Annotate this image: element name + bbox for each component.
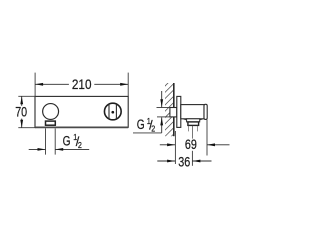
dim 210 ext line right	[127, 73, 129, 97]
svg-text:G: G	[63, 133, 71, 148]
side G1/2 bottom arrow	[161, 117, 163, 132]
dim G1/2 front ext line left	[45, 128, 47, 154]
wall surface line lower	[173, 117, 175, 136]
dim 36 left arrow	[157, 160, 175, 162]
dim 70 ext line top	[18, 95, 35, 97]
dim 69 left arrow	[160, 144, 175, 146]
dim G1/2 front left arrow	[29, 148, 46, 150]
outlet boss circle	[104, 103, 121, 120]
dim 69 right arrow	[207, 144, 230, 146]
hose phantom line right	[197, 126, 199, 131]
dim G1/2 front right arrow	[55, 148, 89, 150]
body cylinder	[181, 105, 204, 119]
side plate edge	[177, 96, 181, 127]
svg-text:69: 69	[185, 137, 197, 152]
dim 210 arrow right	[120, 83, 128, 86]
dim 210 arrow left	[35, 83, 43, 86]
boss chord left	[108, 104, 110, 119]
side G1/2 top arrow	[161, 91, 163, 107]
svg-text:70: 70	[15, 104, 27, 119]
wall hatch lines (side view)	[162, 75, 177, 153]
wall surface line upper	[173, 83, 175, 108]
outlet flange	[187, 119, 200, 122]
connector bottom extension line	[157, 116, 170, 118]
dim 70 line bottom part	[21, 119, 23, 128]
connector top extension line	[157, 107, 170, 109]
dim 70 arrow up	[20, 96, 23, 104]
dim 70 ext line bottom	[18, 127, 35, 129]
dim 36 right arrow	[192, 160, 211, 162]
knob circle	[43, 104, 59, 120]
svg-text:2: 2	[151, 123, 155, 133]
dim 70 arrow down	[20, 120, 23, 128]
svg-text:G: G	[137, 117, 145, 132]
knob bracket	[46, 121, 56, 125]
side G1/2 leader underline	[133, 132, 162, 134]
outlet flange chamfer left	[183, 119, 186, 120]
wall dim extension line below	[174, 131, 176, 164]
svg-text:36: 36	[178, 155, 190, 170]
dim 210 line right part	[94, 83, 128, 85]
outlet nipple	[188, 122, 199, 126]
boss chord right	[115, 104, 117, 119]
plate bottom shadow edge	[35, 126, 128, 128]
dim 36 right ext line	[191, 151, 193, 166]
dim 210 line left part	[35, 83, 69, 85]
dim 70 line top part	[21, 96, 23, 106]
dim 210 ext line left	[34, 73, 36, 97]
dim 69 right ext line	[206, 120, 208, 156]
hose phantom line left	[187, 126, 189, 131]
svg-text:210: 210	[72, 77, 92, 92]
outlet flange chamfer right	[200, 119, 203, 120]
svg-text:2: 2	[78, 140, 82, 150]
plate (front view faceplate)	[35, 96, 128, 127]
nipple center line upper	[191, 126, 193, 139]
end cap	[204, 104, 207, 119]
boss center dot	[111, 111, 114, 114]
dim G1/2 front ext line right	[54, 128, 56, 154]
connector through wall	[170, 108, 177, 117]
